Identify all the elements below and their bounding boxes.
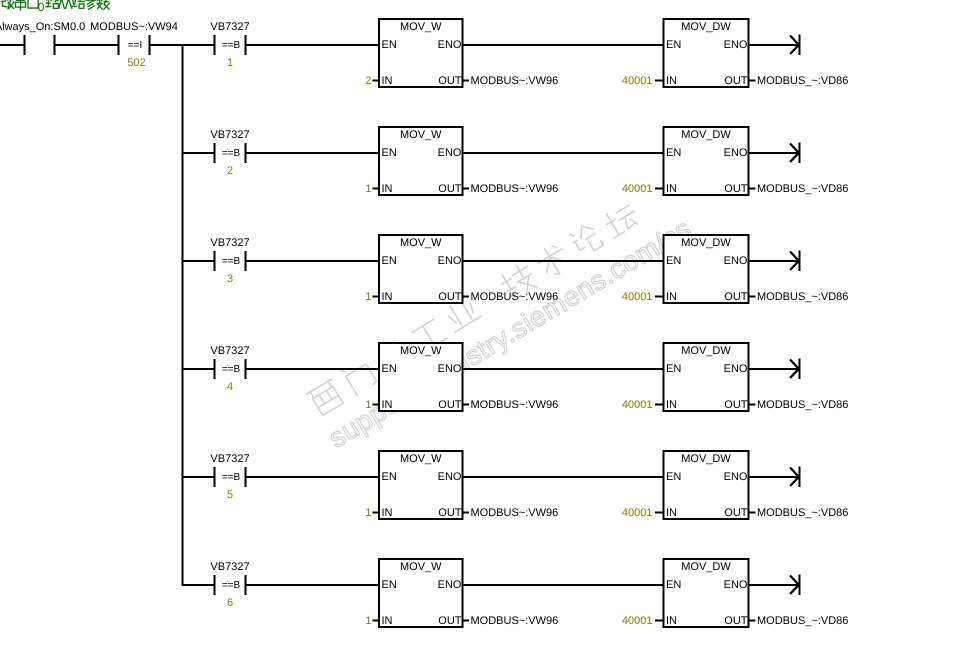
contact ==B VB7327 compare 3 [210,237,249,285]
svg-text:Always_On:SM0.0: Always_On:SM0.0 [0,21,85,33]
svg-text:MODBUS~:VW96: MODBUS~:VW96 [471,507,559,519]
svg-text:ENO: ENO [724,255,748,267]
value 2 (MOV_W IN operand) [365,75,379,87]
svg-text:EN: EN [666,39,681,51]
svg-text:IN: IN [666,183,677,195]
svg-text:6: 6 [227,597,233,609]
svg-text:EN: EN [666,471,681,483]
svg-text:==B: ==B [222,472,241,483]
svg-text:EN: EN [382,363,397,375]
svg-text:IN: IN [666,507,677,519]
svg-text:IN: IN [666,291,677,303]
svg-text:3: 3 [227,273,233,285]
svg-text:ENO: ENO [438,363,462,375]
network comment (green, top-clipped) [2,0,110,14]
contact Always_On:SM0.0 (normally open) [0,21,85,55]
operand MODBUS~:VW96 (MOV_W OUT) [463,507,559,519]
svg-text:IN: IN [382,291,393,303]
svg-text:==B: ==B [222,256,241,267]
svg-text:IN: IN [382,507,393,519]
value 40001 (MOV_DW IN operand) [622,507,664,519]
svg-text:IN: IN [666,75,677,87]
svg-text:VB7327: VB7327 [210,129,249,141]
svg-text:ENO: ENO [724,579,748,591]
svg-text:40001: 40001 [622,615,653,627]
value 40001 (MOV_DW IN operand) [622,615,664,627]
svg-text:MOV_W: MOV_W [400,561,442,573]
svg-text:MOV_DW: MOV_DW [681,129,731,141]
svg-text:2: 2 [227,165,233,177]
wire: contact to MOV_W EN [246,152,379,154]
wire: MOV_DW ENO to rung terminator [750,476,799,478]
wire: MOV_W ENO to MOV_DW EN [464,44,663,46]
rung terminator arrow [790,467,800,488]
svg-text:VB7327: VB7327 [210,345,249,357]
svg-text:40001: 40001 [622,183,653,195]
svg-text:MOV_W: MOV_W [400,21,442,33]
svg-text:ENO: ENO [438,471,462,483]
value 1 (MOV_W IN operand) [365,183,379,195]
svg-text:IN: IN [382,399,393,411]
wire: MOV_DW ENO to rung terminator [750,44,799,46]
rung terminator arrow [790,575,800,596]
svg-text:ENO: ENO [438,147,462,159]
svg-text:OUT: OUT [724,615,748,627]
block MOV_DW U2B [664,127,749,195]
svg-text:==B: ==B [222,580,241,591]
operand MODBUS~:VW96 (MOV_W OUT) [463,75,559,87]
wire: MOV_W ENO to MOV_DW EN [464,152,663,154]
svg-text:==B: ==B [222,364,241,375]
operand MODBUS_~:VD86 (MOV_DW OUT) [749,291,849,303]
wire: branch to contact [182,368,214,370]
operand MODBUS_~:VD86 (MOV_DW OUT) [749,75,849,87]
wire: MOV_W ENO to MOV_DW EN [464,584,663,586]
svg-text:1: 1 [365,399,371,411]
svg-text:ENO: ENO [724,471,748,483]
wire: contact 1 to contact 2 [56,44,118,46]
block MOV_W U3A [379,235,463,303]
wire: MOV_DW ENO to rung terminator [750,152,799,154]
svg-text:VB7327: VB7327 [210,21,249,33]
operand MODBUS_~:VD86 (MOV_DW OUT) [749,615,849,627]
contact ==B VB7327 compare 2 [210,129,249,177]
svg-text:EN: EN [666,579,681,591]
wire: branch to contact [182,476,214,478]
svg-text:MOV_W: MOV_W [400,237,442,249]
svg-text:MOV_W: MOV_W [400,453,442,465]
value 1 (MOV_W IN operand) [365,399,379,411]
wire: contact to MOV_W EN [246,584,379,586]
svg-text:OUT: OUT [438,507,462,519]
svg-text:ENO: ENO [438,255,462,267]
value 1 (MOV_W IN operand) [365,615,379,627]
svg-text:IN: IN [382,615,393,627]
svg-text:MOV_DW: MOV_DW [681,453,731,465]
svg-text:0: 0 [38,0,45,14]
wire: left rail to contact 1 [0,44,24,46]
svg-text:OUT: OUT [724,75,748,87]
svg-text:OUT: OUT [438,75,462,87]
svg-text:MODBUS_~:VD86: MODBUS_~:VD86 [757,291,848,303]
svg-text:EN: EN [382,39,397,51]
svg-text:IN: IN [666,615,677,627]
wire: MOV_W ENO to MOV_DW EN [464,368,663,370]
block MOV_W U4A [379,343,463,411]
svg-text:==B: ==B [222,148,241,159]
svg-text:MODBUS~:VW96: MODBUS~:VW96 [471,615,559,627]
block MOV_DW U5B [664,451,749,519]
svg-text:4: 4 [227,381,233,393]
contact ==B VB7327 compare 6 [210,561,249,609]
operand MODBUS~:VW96 (MOV_W OUT) [463,183,559,195]
contact ==I MODBUS~:VW94 compare 502 [90,21,178,69]
rung terminator arrow [790,143,800,164]
svg-text:IN: IN [382,183,393,195]
svg-text:40001: 40001 [622,399,653,411]
svg-text:MODBUS~:VW96: MODBUS~:VW96 [471,399,559,411]
svg-text:IN: IN [382,75,393,87]
rung terminator arrow [790,359,800,380]
operand MODBUS~:VW96 (MOV_W OUT) [463,399,559,411]
svg-text:==I: ==I [128,40,142,51]
svg-text:MOV_W: MOV_W [400,345,442,357]
svg-text:5: 5 [227,489,233,501]
value 1 (MOV_W IN operand) [365,507,379,519]
svg-text:MOV_DW: MOV_DW [681,345,731,357]
block MOV_DW U4B [664,343,749,411]
svg-text:ENO: ENO [438,579,462,591]
value 40001 (MOV_DW IN operand) [622,75,664,87]
block MOV_DW U3B [664,235,749,303]
contact ==B VB7327 compare 5 [210,453,249,501]
operand MODBUS~:VW96 (MOV_W OUT) [463,291,559,303]
svg-text:EN: EN [382,255,397,267]
operand MODBUS_~:VD86 (MOV_DW OUT) [749,183,849,195]
block MOV_DW U6B [664,559,749,627]
svg-text:ENO: ENO [724,39,748,51]
rung terminator arrow [790,251,800,272]
wire: MOV_DW ENO to rung terminator [750,584,799,586]
svg-text:ENO: ENO [724,147,748,159]
svg-text:MODBUS_~:VD86: MODBUS_~:VD86 [757,183,848,195]
svg-text:OUT: OUT [724,291,748,303]
svg-text:1: 1 [365,183,371,195]
svg-text:MODBUS~:VW96: MODBUS~:VW96 [471,183,559,195]
svg-text:OUT: OUT [438,291,462,303]
svg-text:MOV_W: MOV_W [400,129,442,141]
svg-text:OUT: OUT [438,183,462,195]
wire: MOV_DW ENO to rung terminator [750,368,799,370]
rung terminator arrow [790,35,800,56]
value 40001 (MOV_DW IN operand) [622,291,664,303]
svg-text:ENO: ENO [438,39,462,51]
wire: contact to MOV_W EN [246,44,379,46]
svg-text:EN: EN [382,471,397,483]
wire: branch to contact [182,152,214,154]
svg-text:1: 1 [365,615,371,627]
svg-text:IN: IN [666,399,677,411]
operand MODBUS_~:VD86 (MOV_DW OUT) [749,399,849,411]
svg-text:2: 2 [365,75,371,87]
svg-text:1: 1 [227,57,233,69]
contact ==B VB7327 compare 1 [210,21,249,69]
svg-text:EN: EN [382,579,397,591]
svg-text:40001: 40001 [622,507,653,519]
svg-text:MOV_DW: MOV_DW [681,237,731,249]
svg-text:VB7327: VB7327 [210,561,249,573]
svg-text:MODBUS~:VW94: MODBUS~:VW94 [90,21,178,33]
svg-text:40001: 40001 [622,75,653,87]
wire: branch to contact [182,584,214,586]
svg-text:OUT: OUT [438,399,462,411]
svg-text:OUT: OUT [724,399,748,411]
svg-text:MODBUS_~:VD86: MODBUS_~:VD86 [757,507,848,519]
operand MODBUS_~:VD86 (MOV_DW OUT) [749,507,849,519]
svg-text:MODBUS~:VW96: MODBUS~:VW96 [471,75,559,87]
svg-text:==B: ==B [222,40,241,51]
svg-text:EN: EN [666,363,681,375]
branch vertical wire (junction at rung 1 to rung 6) [182,44,184,586]
svg-text:MODBUS_~:VD86: MODBUS_~:VD86 [757,399,848,411]
svg-text:VB7327: VB7327 [210,453,249,465]
block MOV_W U2A [379,127,463,195]
block MOV_W U5A [379,451,463,519]
wire: MOV_DW ENO to rung terminator [750,260,799,262]
contact ==B VB7327 compare 4 [210,345,249,393]
wire: contact to MOV_W EN [246,476,379,478]
svg-text:OUT: OUT [724,507,748,519]
svg-text:EN: EN [382,147,397,159]
svg-text:MODBUS_~:VD86: MODBUS_~:VD86 [757,75,848,87]
wire: contact to MOV_W EN [246,260,379,262]
svg-text:OUT: OUT [438,615,462,627]
svg-text:VB7327: VB7327 [210,237,249,249]
wire: contact to MOV_W EN [246,368,379,370]
wire: contact 2 through branch node to contact 3 [151,44,214,46]
svg-text:ENO: ENO [724,363,748,375]
svg-text:502: 502 [127,57,145,69]
value 40001 (MOV_DW IN operand) [622,183,664,195]
wire: MOV_W ENO to MOV_DW EN [464,476,663,478]
svg-text:EN: EN [666,147,681,159]
operand MODBUS~:VW96 (MOV_W OUT) [463,615,559,627]
block MOV_W U1A [379,19,463,87]
wire: branch to contact [182,260,214,262]
block MOV_DW U1B [664,19,749,87]
svg-text:1: 1 [365,291,371,303]
svg-text:MODBUS~:VW96: MODBUS~:VW96 [471,291,559,303]
value 1 (MOV_W IN operand) [365,291,379,303]
wire: MOV_W ENO to MOV_DW EN [464,260,663,262]
svg-text:MOV_DW: MOV_DW [681,21,731,33]
svg-text:MODBUS_~:VD86: MODBUS_~:VD86 [757,615,848,627]
value 40001 (MOV_DW IN operand) [622,399,664,411]
svg-text:EN: EN [666,255,681,267]
block MOV_W U6A [379,559,463,627]
svg-text:OUT: OUT [724,183,748,195]
svg-text:40001: 40001 [622,291,653,303]
svg-text:MOV_DW: MOV_DW [681,561,731,573]
svg-text:1: 1 [365,507,371,519]
